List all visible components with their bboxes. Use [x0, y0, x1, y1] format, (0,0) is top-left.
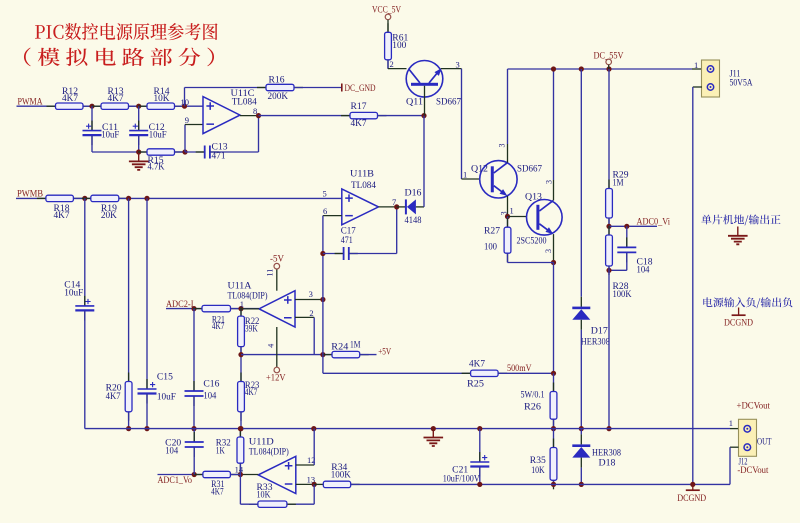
svg-text:10uF: 10uF	[149, 130, 167, 140]
svg-text:C15: C15	[157, 372, 173, 382]
svg-text:3: 3	[544, 249, 553, 253]
node rail-gnd	[431, 426, 436, 431]
svg-text:10uF: 10uF	[64, 289, 83, 299]
node pin8	[256, 113, 261, 118]
J12 pin2 wire	[730, 447, 739, 484]
power port VCC_5V	[372, 6, 401, 33]
C13 right wire	[210, 151, 259, 153]
C16 bottom lead	[193, 396, 195, 429]
svg-text:6: 6	[323, 206, 327, 216]
resistor R18	[37, 195, 83, 221]
svg-text:10uF: 10uF	[101, 130, 119, 140]
R26 bottom lead	[553, 419, 555, 428]
svg-text:4K7: 4K7	[469, 359, 485, 369]
analog rail	[85, 428, 730, 430]
R29 bottom lead	[608, 218, 610, 226]
node C16 top	[191, 306, 196, 311]
svg-text:ADC1_Vo: ADC1_Vo	[158, 476, 193, 486]
node fb U11A	[238, 352, 243, 357]
pin 13 stub	[296, 483, 314, 485]
C11 top lead	[91, 106, 93, 130]
svg-text:R24: R24	[331, 342, 348, 352]
output negative rail	[351, 483, 730, 485]
wire	[129, 105, 148, 107]
svg-text:4K7: 4K7	[211, 488, 224, 498]
svg-text:471: 471	[212, 152, 226, 162]
node C12 bottom / ground	[136, 149, 141, 154]
pin 4 U11A / +12V	[266, 327, 286, 384]
emitter sense vertical	[553, 263, 555, 374]
node pin14	[238, 472, 243, 477]
resistor R32	[216, 428, 244, 475]
node C17 left	[320, 251, 325, 256]
node rail-R26	[551, 426, 556, 431]
node rail-R28	[606, 426, 611, 431]
R32 top lead	[239, 429, 241, 437]
pin 11 U11A / -5V	[266, 254, 284, 290]
transistor Q11 SD667	[406, 61, 461, 116]
Q13 base wire	[508, 216, 527, 218]
Q12 collector pin	[507, 144, 509, 163]
transistor Q13 2SC5200	[517, 192, 563, 246]
svg-text:104: 104	[203, 392, 216, 402]
svg-text:100: 100	[392, 41, 406, 51]
wire	[175, 105, 204, 107]
D16 cathode wire	[397, 206, 406, 208]
svg-text:50V5A: 50V5A	[730, 79, 753, 89]
pin 11 lead	[276, 269, 278, 291]
node rail-C15	[144, 426, 149, 431]
diode D16 4148	[397, 189, 422, 227]
capacitor C16	[185, 309, 220, 429]
R35 top lead	[553, 429, 555, 448]
C18 top lead	[626, 226, 628, 247]
D18 anode pin	[580, 458, 582, 468]
capacitor C14	[64, 198, 94, 428]
svg-text:10K: 10K	[531, 466, 545, 476]
C14 top lead	[84, 198, 86, 306]
node pin9 feedback	[182, 149, 187, 154]
svg-text:2: 2	[390, 59, 394, 69]
D17 cathode vertical	[580, 69, 582, 297]
svg-text:4K7: 4K7	[108, 94, 124, 104]
pin 9 stub	[185, 124, 203, 126]
svg-text:TL084(DIP): TL084(DIP)	[228, 291, 268, 302]
C21 bottom lead	[479, 467, 481, 485]
C17 right wire	[349, 253, 397, 255]
C20 bottom lead	[193, 447, 195, 475]
J11 pin2 stub	[693, 86, 702, 88]
capacitor C20	[165, 429, 204, 475]
svg-text:SD667: SD667	[517, 164, 542, 174]
node outrail-D18	[579, 482, 584, 487]
svg-text:TL084: TL084	[351, 181, 376, 191]
node C20 bottom	[192, 472, 197, 477]
ground (analog rail)	[424, 429, 444, 446]
resistor R16	[257, 75, 303, 102]
ADC0_Vi stub	[609, 225, 657, 227]
svg-text:1M: 1M	[350, 341, 361, 351]
R29 top vertical	[608, 69, 610, 189]
wire	[92, 151, 147, 153]
R26 top lead	[553, 373, 555, 391]
svg-text:D17: D17	[591, 327, 608, 337]
connector J11	[702, 60, 753, 97]
svg-text:ADC0_Vi: ADC0_Vi	[637, 218, 671, 228]
resistor R17	[341, 102, 387, 129]
resistor R25	[462, 359, 508, 389]
svg-text:+DCVout: +DCVout	[737, 401, 771, 411]
svg-text:1: 1	[510, 205, 514, 215]
node C18 top	[624, 224, 629, 229]
svg-text:4.7K: 4.7K	[148, 163, 165, 173]
resistor R23	[238, 373, 260, 421]
net ADC1_Vo	[158, 475, 203, 487]
wire	[294, 87, 341, 89]
svg-text:100K: 100K	[331, 471, 351, 481]
wire	[184, 88, 186, 107]
capacitor C15	[138, 372, 176, 428]
R33 right wire	[287, 503, 314, 505]
svg-text:3: 3	[498, 144, 507, 148]
pin 2 stub	[295, 316, 314, 318]
pin 12 stub	[296, 464, 314, 466]
pin 7 stub	[379, 206, 397, 208]
D17 anode vertical	[580, 330, 582, 429]
resistor R14	[138, 87, 184, 110]
node C15 top	[144, 196, 149, 201]
diode D18 HER308	[572, 429, 621, 469]
R61 bottom lead	[387, 60, 389, 69]
svg-text:100K: 100K	[613, 290, 632, 300]
svg-text:U11A: U11A	[228, 282, 252, 292]
node rail-R29	[606, 66, 611, 71]
svg-text:4: 4	[266, 344, 275, 348]
power port DC_55V	[594, 51, 624, 69]
svg-text:Q13: Q13	[525, 192, 542, 202]
net 500mV	[498, 364, 553, 374]
svg-text:104: 104	[165, 447, 178, 457]
net ADC0_Vi	[609, 218, 670, 228]
svg-text:HER308: HER308	[581, 338, 610, 348]
capacitor C12	[129, 106, 167, 152]
svg-text:R35: R35	[530, 456, 546, 466]
svg-text:-5V: -5V	[270, 254, 284, 264]
wire	[230, 474, 240, 476]
capacitor C17	[323, 227, 397, 260]
R33 right riser	[313, 484, 315, 504]
wire	[185, 87, 267, 89]
C18 to R28 wire	[609, 269, 627, 271]
Q11 base lead	[424, 86, 426, 116]
node rail-C21	[477, 426, 482, 431]
D16 to Q11 base vertical	[423, 116, 425, 207]
feedback vertical	[258, 116, 260, 152]
wire	[119, 197, 342, 199]
resistor R12	[47, 87, 93, 110]
R27 bottom lead	[507, 253, 509, 262]
svg-text:9: 9	[185, 115, 189, 125]
svg-text:4K7: 4K7	[106, 392, 121, 402]
label 单片机地/输出正	[701, 215, 780, 226]
pin6/C17 vertical	[322, 216, 324, 374]
Q12 collector vertical	[507, 69, 509, 144]
resistor R21	[193, 305, 240, 332]
feedback wire	[241, 354, 332, 356]
resistor R28	[606, 226, 632, 300]
op-amp U11C	[203, 89, 257, 134]
Q13 emitter lead	[553, 234, 555, 262]
svg-text:C17: C17	[341, 227, 356, 237]
resistor R33	[240, 475, 314, 508]
Q11 emitter wire	[441, 68, 462, 70]
port DC_GND	[342, 84, 376, 95]
svg-text:2: 2	[309, 308, 313, 318]
resistor R35	[530, 429, 557, 490]
connector J12	[737, 419, 771, 476]
capacitor C21	[443, 429, 490, 485]
pin 12 riser	[313, 429, 315, 465]
svg-text:10K: 10K	[154, 94, 170, 104]
svg-text:4148: 4148	[405, 216, 422, 226]
svg-text:1M: 1M	[613, 179, 624, 189]
node rail-R23	[238, 426, 243, 431]
Q11 emitter to Q12 base vertical	[461, 69, 463, 179]
pin 4 lead	[276, 327, 278, 367]
R33 left wire	[240, 503, 258, 505]
R27 top lead	[507, 217, 509, 228]
svg-text:D18: D18	[599, 459, 616, 469]
svg-text:Q11: Q11	[406, 97, 423, 107]
svg-text:10uF/100V: 10uF/100V	[443, 475, 480, 485]
node outrail-C21	[477, 482, 482, 487]
node pin13	[312, 482, 317, 487]
svg-text:104: 104	[637, 266, 650, 276]
node rail-R20	[126, 426, 131, 431]
node rail-C16	[191, 426, 196, 431]
node R20 top	[126, 196, 131, 201]
rail DC_55V	[508, 68, 693, 70]
C18 bottom lead	[626, 252, 628, 270]
resistor R29	[606, 171, 629, 227]
resistor R24	[323, 341, 369, 358]
node pin10	[182, 104, 187, 109]
node R28 bottom	[606, 268, 611, 273]
resistor R13	[92, 87, 138, 110]
net +5V	[360, 347, 392, 357]
R35 bottom lead	[553, 480, 555, 484]
svg-text:3: 3	[544, 180, 553, 184]
node fb-R24	[320, 352, 325, 357]
svg-text:R17: R17	[351, 102, 367, 112]
node pin7	[394, 204, 399, 209]
svg-text:3: 3	[456, 59, 460, 69]
wire	[231, 308, 260, 310]
svg-text:5: 5	[323, 189, 327, 199]
svg-text:-DCVout: -DCVout	[737, 466, 768, 476]
svg-text:471: 471	[341, 236, 353, 246]
title line 2: （模拟电路部分）	[24, 48, 214, 67]
R32 bottom lead	[239, 463, 241, 474]
wire	[73, 197, 90, 199]
svg-text:OUT: OUT	[757, 437, 772, 447]
wire	[259, 115, 351, 117]
wire	[166, 308, 202, 310]
Q13 collector vertical	[553, 69, 555, 180]
svg-text:DCGND: DCGND	[677, 494, 706, 504]
wire	[729, 447, 731, 484]
D17 anode pin	[580, 320, 582, 330]
wire	[158, 474, 203, 476]
pin 2 drop	[313, 317, 315, 354]
svg-text:10K: 10K	[257, 490, 271, 500]
svg-text:R27: R27	[484, 227, 500, 237]
wire	[16, 197, 46, 199]
wire	[360, 354, 377, 356]
to R25 wire	[323, 372, 471, 374]
resistor R31	[194, 471, 240, 497]
wire	[508, 262, 554, 264]
node rail-R32	[238, 426, 243, 431]
net ADC2-I	[166, 300, 202, 310]
svg-text:1: 1	[729, 418, 733, 428]
svg-text:1: 1	[463, 169, 467, 179]
R22-R23 vertical	[240, 347, 242, 382]
op-amp U11A	[228, 282, 296, 327]
pin 14 stub	[240, 474, 258, 476]
D17 cathode pin	[580, 297, 582, 307]
svg-text:R16: R16	[269, 75, 285, 85]
svg-text:100: 100	[484, 243, 497, 253]
svg-text:2SC5200: 2SC5200	[517, 236, 547, 246]
svg-text:1K: 1K	[216, 447, 225, 457]
svg-text:U11B: U11B	[350, 169, 374, 179]
J12 pin2 stub	[730, 446, 739, 448]
resistor R26	[521, 373, 557, 428]
node Q13 emitter	[551, 260, 556, 265]
pin 8 stub	[240, 115, 259, 117]
svg-text:R26: R26	[524, 403, 541, 413]
R22 top lead	[240, 309, 242, 317]
svg-text:U11D: U11D	[249, 437, 274, 447]
svg-text:39K: 39K	[245, 325, 258, 335]
resistor R27	[484, 217, 511, 263]
node ADC0_Vi	[606, 224, 611, 229]
C13 left wire	[185, 151, 205, 153]
svg-text:11: 11	[266, 269, 275, 277]
pin 6 stub	[323, 215, 342, 217]
C14 bottom lead	[84, 310, 86, 428]
power port DCGND (right)	[724, 308, 753, 329]
svg-text:TL084(DIP): TL084(DIP)	[249, 446, 289, 457]
wire	[378, 115, 425, 117]
wire	[17, 105, 56, 107]
pin 1 stub	[241, 308, 259, 310]
Q13 collector pin	[553, 180, 555, 200]
transistor Q12 SD667	[471, 161, 542, 199]
svg-text:Q12: Q12	[471, 164, 488, 174]
wire	[175, 151, 186, 153]
resistor R19	[82, 195, 128, 221]
R20 bottom lead	[128, 412, 130, 429]
D16 anode wire	[416, 206, 424, 208]
power port DCGND (bottom)	[677, 484, 706, 503]
svg-text:4K7: 4K7	[62, 94, 78, 104]
svg-text:4K7: 4K7	[212, 322, 225, 332]
C12 bottom lead	[138, 135, 140, 152]
J12 pin1 stub	[730, 428, 739, 430]
svg-text:R25: R25	[467, 380, 484, 390]
R33 left riser	[239, 475, 241, 505]
Q11 collector wire	[388, 68, 407, 70]
svg-text:200K: 200K	[268, 92, 289, 102]
C12 top lead	[138, 106, 140, 130]
D18 cathode pin	[580, 434, 582, 444]
svg-text:1: 1	[694, 60, 698, 70]
svg-text:SD667: SD667	[436, 97, 461, 107]
wire	[83, 105, 101, 107]
svg-text:DC_GND: DC_GND	[345, 84, 376, 94]
node PWMA-C11	[89, 104, 94, 109]
J11 pin1 stub	[692, 68, 702, 70]
pin 9 vertical	[184, 125, 186, 153]
resistor R20	[106, 373, 132, 421]
node Q13 base	[505, 214, 510, 219]
svg-text:D16: D16	[405, 189, 422, 199]
R28 top lead	[608, 226, 610, 235]
svg-text:4K7: 4K7	[351, 119, 367, 129]
C17 left wire	[323, 253, 344, 255]
C15 vertical	[146, 198, 148, 389]
svg-text:20K: 20K	[101, 211, 117, 221]
svg-text:10uF: 10uF	[157, 392, 176, 402]
DC_55V stem	[608, 65, 610, 69]
svg-text:500mV: 500mV	[507, 364, 532, 374]
R23 bottom lead	[240, 412, 242, 429]
Q12 emitter lead	[507, 196, 509, 217]
node Q11 base	[421, 113, 426, 118]
node rail-Q13	[551, 66, 556, 71]
svg-text:5W/0.1: 5W/0.1	[521, 391, 545, 401]
svg-text:3: 3	[309, 289, 313, 299]
pin7 feedback vertical	[396, 207, 398, 254]
node outrail-R35	[551, 482, 556, 487]
capacitor C11	[83, 106, 120, 152]
R28 to rail vertical	[608, 266, 610, 429]
D18 anode wire	[580, 468, 582, 485]
svg-text:4K7: 4K7	[54, 211, 70, 221]
svg-text:4K7: 4K7	[245, 388, 258, 398]
Q12 base stub	[462, 178, 480, 180]
svg-text:C16: C16	[203, 379, 219, 389]
wire	[498, 372, 553, 374]
C11 bottom lead	[91, 135, 93, 152]
ground (PWMA filter)	[129, 152, 149, 170]
VCC stem	[387, 20, 389, 33]
svg-text:+12V: +12V	[266, 374, 286, 384]
resistor R22	[238, 307, 260, 356]
capacitor C13	[185, 142, 259, 161]
D18 top wire	[580, 429, 582, 435]
node pin3-U11A	[320, 297, 325, 302]
op-amp U11D	[249, 437, 296, 493]
C16 vertical	[193, 309, 195, 391]
C21 top lead	[479, 429, 481, 462]
resistor R61	[385, 23, 409, 69]
op-amp U11B	[342, 169, 379, 224]
resistor R15	[138, 149, 184, 173]
resistor R34	[314, 463, 359, 488]
